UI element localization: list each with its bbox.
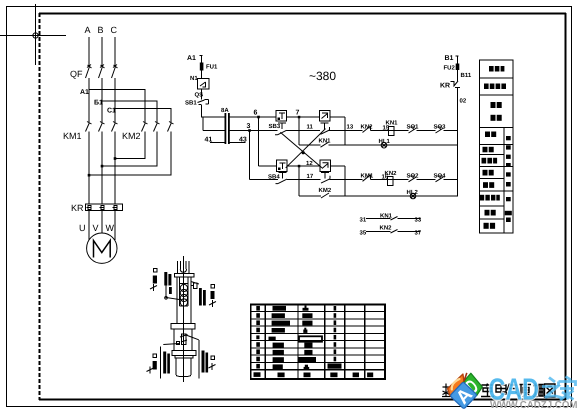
wire C1 feed to KM2: [115, 108, 171, 122]
coil KN1: [389, 126, 395, 135]
wire phase A mid: [88, 78, 90, 122]
svg-text:A1: A1: [187, 55, 196, 62]
button SB2 lower contact: [321, 123, 330, 135]
wire FU2 to KR: [457, 70, 459, 81]
wire node3 down to rail D: [249, 131, 251, 180]
KM2 contact pole 3: [168, 122, 174, 132]
component table col2 blobs: [269, 306, 291, 377]
component table col5 blob: [353, 373, 359, 378]
KM2 contact pole 1: [142, 122, 148, 132]
svg-text:SB4: SB4: [268, 174, 280, 181]
title glyph 1: [442, 384, 451, 397]
svg-text:KR: KR: [71, 203, 84, 213]
button SB4b lower contact: [321, 172, 330, 183]
svg-text:B11: B11: [461, 72, 472, 79]
svg-text:C1: C1: [107, 108, 116, 115]
KR heater element A: [87, 206, 92, 210]
svg-text:37: 37: [415, 230, 422, 237]
svg-text:WWW.CADZJ.COM: WWW.CADZJ.COM: [490, 400, 578, 411]
dimension marks far upper-right: [209, 285, 216, 308]
svg-text:SB1: SB1: [185, 100, 197, 107]
dimension leader upper-left: [165, 286, 183, 301]
svg-text:KN1: KN1: [386, 120, 399, 127]
wire SB1 down to rail A: [201, 105, 203, 118]
wire KR to motor V: [101, 211, 103, 234]
wire KR to motor U: [88, 211, 90, 241]
title glyph 6: [519, 385, 531, 398]
node 3 junction: [248, 129, 251, 132]
dimension text lower-left: [163, 352, 170, 374]
svg-text:C: C: [111, 25, 118, 35]
registration crosshair: [0, 4, 66, 65]
motor M letter: [94, 241, 111, 258]
svg-text:02: 02: [460, 98, 467, 105]
rail C: [259, 165, 346, 167]
border inner frame left dashed: [38, 13, 40, 400]
legend text blobs: [480, 66, 506, 229]
contact SQ2: [409, 176, 417, 182]
dimension text upper-left: [164, 272, 172, 294]
dimension text lower-right: [202, 351, 209, 373]
svg-text:KM1: KM1: [63, 131, 82, 141]
svg-text:A: A: [85, 25, 91, 35]
watermark cube logo: [448, 373, 483, 411]
interlock diagonal SB3 to box4: [280, 132, 322, 168]
title glyph 2 (hidden by logo): [457, 384, 468, 397]
title glyph 5: [507, 384, 521, 397]
part lower step: [175, 355, 193, 358]
junction C crossover: [114, 157, 117, 160]
dimension text upper-right: [199, 288, 206, 306]
wire primary loop bottom: [203, 130, 225, 132]
svg-text:KM2: KM2: [319, 187, 332, 194]
dimension marks far upper-left: [150, 269, 157, 292]
svg-text:Б1: Б1: [94, 100, 103, 107]
legend table frame: [480, 60, 514, 233]
junction B crossover: [101, 165, 104, 168]
motor M circle: [87, 233, 117, 263]
svg-text:B: B: [98, 25, 104, 35]
svg-text:FU1: FU1: [206, 64, 218, 71]
title glyph 7: [533, 384, 543, 397]
svg-text:B1: B1: [445, 55, 454, 62]
part bottom cylinder: [176, 358, 191, 376]
thermal contact KR: [451, 81, 461, 88]
part lower flange: [172, 350, 196, 355]
svg-text:KM1: KM1: [361, 173, 374, 180]
wire KR to motor W: [114, 211, 116, 241]
wire KM2 pole1 crossover to C: [115, 132, 145, 159]
fuse FU1: [200, 63, 204, 71]
rail B: [250, 130, 459, 132]
component table frame: [251, 305, 385, 380]
part clevis fork: [177, 261, 189, 274]
wire node6 down to rail C: [258, 117, 260, 166]
wire primary loop top: [202, 116, 225, 118]
svg-text:V: V: [93, 223, 99, 233]
KM2 contact pole 2: [154, 122, 160, 132]
part left extension line: [159, 347, 161, 379]
KM1 contact pole A: [86, 122, 92, 132]
button SB4 contact: [276, 172, 288, 183]
wire phase A top: [88, 37, 90, 67]
svg-text:33: 33: [415, 217, 422, 224]
svg-text:12: 12: [306, 160, 313, 167]
svg-text:~380: ~380: [309, 69, 336, 83]
svg-text:QF: QF: [70, 69, 83, 79]
lamp HL2 line: [299, 195, 458, 197]
button SB1 contact: [198, 98, 209, 105]
KR heater element B: [100, 206, 105, 210]
contact KM1 NC: [363, 175, 371, 182]
wire 43 stub: [230, 142, 246, 144]
wire node7 down to selfhold KN1: [298, 117, 300, 145]
watermark glyph jia: [559, 377, 576, 401]
aux row KN1 wire: [366, 217, 420, 221]
breaker QF pole B: [99, 65, 105, 79]
KM1 contact pole B: [99, 122, 105, 132]
svg-text:8A: 8A: [221, 107, 229, 114]
fuse FU2: [456, 64, 460, 71]
wire phase C top: [114, 37, 116, 67]
border inner frame bottom: [39, 399, 566, 401]
selfhold line KN1: [299, 144, 458, 146]
contact KN2 NC: [363, 126, 371, 133]
KM1 contact pole C: [112, 122, 118, 132]
wire KM2 pole2 crossover to B: [102, 132, 157, 167]
component table col3 blobs: [299, 306, 323, 378]
wire primary loop left: [202, 117, 204, 131]
svg-text:HL1: HL1: [379, 138, 391, 145]
switch box QS: [198, 79, 210, 90]
cube top face orange: [448, 374, 464, 396]
svg-text:KM2: KM2: [122, 131, 141, 141]
title glyph 8: [545, 384, 556, 397]
transformer primary bar: [225, 113, 227, 144]
button box SB2: [276, 110, 287, 121]
wire railC to railD at x345: [344, 166, 346, 196]
wire railC to HL2 line at x299: [298, 166, 300, 196]
part centerline: [182, 256, 184, 382]
svg-text:KR: KR: [440, 83, 450, 90]
wire phase C mid: [114, 78, 116, 122]
svg-text:6: 6: [254, 110, 258, 117]
wire phase B lower: [101, 132, 103, 205]
component table col6 blob: [367, 373, 373, 378]
dimension marks far lower-right: [209, 356, 216, 370]
wire box to SB1: [201, 89, 203, 98]
svg-text:SB3: SB3: [269, 123, 281, 130]
wire phase B mid: [101, 78, 103, 122]
wire phase C lower: [114, 132, 116, 205]
part mid flange: [171, 324, 195, 330]
part mid body: [174, 329, 192, 350]
button box SB4b: [320, 160, 330, 172]
junction A crossover: [88, 174, 91, 177]
watermark glyph zhi: [542, 378, 562, 399]
svg-text:7: 7: [296, 110, 300, 117]
transformer secondary bar: [228, 113, 230, 144]
wire secondary tap rail A: [230, 116, 277, 118]
svg-text:W: W: [106, 223, 115, 233]
wire B1 feed to KM2: [102, 101, 157, 122]
wire phase A lower: [88, 132, 90, 205]
junction node 7: [298, 116, 301, 119]
part right extension line: [198, 340, 200, 379]
right rail: [457, 88, 459, 197]
svg-text:FU2: FU2: [444, 65, 456, 72]
cube front face blue: [450, 382, 479, 411]
lamp HL1: [381, 142, 387, 148]
dimension marks far lower-left: [147, 354, 157, 374]
component table col1 blobs: [254, 306, 261, 377]
part upper body tube: [177, 277, 191, 324]
wire KM2 pole3 crossover to A: [89, 132, 171, 176]
border inner frame right: [565, 13, 567, 400]
coil KN2: [388, 176, 394, 185]
contact SQ4: [436, 176, 444, 182]
wire A1 top tick: [200, 56, 203, 63]
component table col4 blobs: [328, 306, 342, 377]
svg-text:31: 31: [360, 217, 367, 224]
wire railA to railB at x345: [344, 117, 346, 145]
button SB3 contact: [275, 123, 287, 135]
interlock diagonal SB2b to box3: [286, 129, 326, 168]
breaker QF pole A: [86, 65, 92, 79]
lamp HL2: [410, 193, 416, 199]
junction node 12: [298, 165, 301, 168]
thermal relay KR box: [86, 204, 123, 211]
part right small fitting: [191, 283, 197, 289]
dimension leader upper-right: [191, 282, 199, 285]
button box SB2b: [320, 110, 331, 121]
KR heater element C: [113, 206, 118, 210]
part spring coils: [180, 284, 187, 306]
svg-text:3: 3: [247, 123, 251, 130]
cube right face green: [464, 373, 482, 395]
svg-text:11: 11: [307, 124, 314, 131]
contact SQ1: [409, 127, 417, 133]
wire B1 top tick: [456, 56, 459, 64]
wire secondary tap rail B: [230, 130, 250, 132]
contact SQ3: [436, 127, 444, 133]
wire phase B top: [101, 37, 103, 67]
button box SB4: [277, 160, 288, 172]
wire 41 stub: [210, 142, 225, 144]
rail D: [250, 178, 459, 180]
node 6 junction: [257, 116, 260, 119]
aux row KN2 wire: [366, 230, 420, 234]
svg-text:U: U: [79, 223, 86, 233]
contact KM2 selfhold: [321, 193, 329, 198]
svg-text:KN1: KN1: [319, 138, 332, 145]
breaker QF pole C: [112, 65, 118, 79]
svg-text:35: 35: [360, 230, 367, 237]
wire A1 feed to KM2: [89, 90, 145, 123]
wire FU1 to switch box: [201, 71, 203, 79]
contact KN1 selfhold: [321, 142, 329, 147]
svg-text:13: 13: [347, 124, 354, 131]
legend right column blobs: [505, 136, 512, 222]
svg-text:A1: A1: [80, 89, 89, 96]
part top flange: [174, 274, 194, 277]
title glyph 4: [496, 384, 507, 395]
svg-text:KN2: KN2: [380, 225, 393, 232]
svg-text:17: 17: [307, 173, 314, 180]
border inner frame top: [39, 13, 566, 15]
wire rail A boxes to x345: [287, 116, 320, 118]
cube seam: [464, 373, 467, 381]
title glyph 3: [481, 384, 494, 397]
interlock junction dot: [302, 151, 305, 154]
part mid pin details: [163, 334, 199, 345]
